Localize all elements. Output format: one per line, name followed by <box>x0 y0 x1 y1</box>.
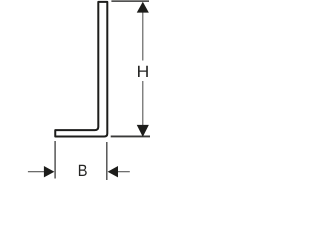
wire left extension line B <box>54 141 56 179</box>
arrowhead B left <box>44 166 55 177</box>
label B <box>79 165 87 176</box>
wire B right arrow tail <box>118 171 130 173</box>
wire right extension line B <box>106 142 108 180</box>
arrowhead H top <box>137 2 149 13</box>
wire B left arrow tail <box>28 171 44 173</box>
wire top extension line H <box>111 0 149 2</box>
wire bottom extension line H <box>111 135 150 137</box>
arrowhead H bottom <box>137 125 149 137</box>
wire H dimension line upper segment <box>142 11 144 61</box>
label H <box>138 66 148 77</box>
wire H dimension line lower segment <box>142 81 144 126</box>
arrowhead B right <box>108 166 118 177</box>
L profile cross-section <box>55 2 107 137</box>
